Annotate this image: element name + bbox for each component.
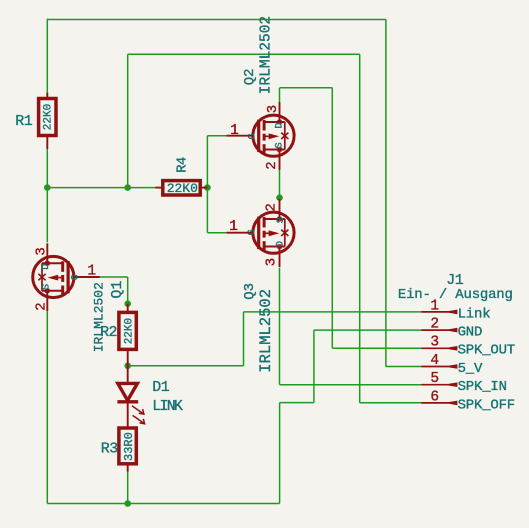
wire gate column between Q2 and Q3 gates [206,136,208,233]
wire to pin 4 5_V [386,366,421,368]
wire Q1 gate down to R2 [127,277,129,304]
svg-text:22K0: 22K0 [123,318,135,344]
wire GND down to bottom rail [279,403,281,504]
wire top 5V rail [47,19,386,21]
svg-text:S: S [276,217,287,223]
wire 5V vertical right [385,20,387,367]
svg-text:GND: GND [458,325,483,341]
svg-text:D: D [275,122,286,128]
wire GND horizontal jog [280,402,314,404]
wire to pin 5 SPK_IN [280,384,422,386]
diode D1 cathode stub [127,402,129,428]
svg-text:Link: Link [458,306,491,322]
connector J1 pin 4 5_V [421,366,450,368]
svg-text:2: 2 [264,161,280,169]
connector J1 pin 1 Link [421,311,450,313]
svg-text:Q2: Q2 [242,68,258,85]
wire bottom GND rail [47,503,279,505]
wire left rail upper (to R1) [46,19,48,93]
wire to pin 3 SPK_OUT [332,347,421,349]
svg-text:2: 2 [33,302,49,310]
svg-text:3: 3 [265,105,281,113]
svg-text:1: 1 [430,298,439,314]
wire to pin 6 SPK_OFF [360,402,422,404]
wire node row R1-R4 [47,187,155,189]
connector J1 pin 5 SPK_IN [421,384,450,386]
svg-text:D: D [275,241,286,247]
diode D1 emission arrow 2 [133,415,145,423]
svg-text:R3: R3 [101,440,118,457]
resistor R3 bottom stub [127,464,129,472]
junction node Link (R2/D1) [124,363,131,370]
svg-text:LINK: LINK [152,398,183,415]
wire R3 bottom to GND rail [127,472,129,504]
wire Q2 source to Q3 drain [279,170,281,202]
svg-text:2: 2 [264,203,280,211]
svg-text:S: S [275,142,286,148]
resistor R4 body [163,181,200,195]
transistor Q1 IRLML2502 (gate right - mirrored) [46,243,48,263]
resistor R1 body [39,99,56,136]
svg-text:3: 3 [34,247,50,255]
diode D1 cathode bar [117,400,138,403]
resistor R3 body [119,428,136,464]
transistor Q2 IRLML2502 (gate left, drain up) [279,102,281,122]
resistor R2 body [119,312,136,349]
svg-text:SPK_OUT: SPK_OUT [458,343,515,359]
svg-text:6: 6 [430,389,439,405]
junction node R4 left [124,184,131,191]
wire Q2 drain up [279,88,281,102]
wire GND vertical jog [313,330,315,403]
wire SPK_OFF vertical right [359,54,361,403]
transistor Q3 gate pin stub [226,232,253,234]
wire Q1 gate horizontal [100,276,128,278]
junction node R3 bottom / GND rail [124,500,131,507]
svg-text:3: 3 [430,335,439,351]
svg-text:S: S [42,284,53,290]
svg-text:IRLML2502: IRLML2502 [258,16,274,94]
transistor Q2 gate pin stub [226,135,253,137]
svg-text:G: G [71,274,82,280]
wire pin 2 GND horizontal [314,329,421,331]
svg-text:R4: R4 [175,157,191,173]
connector J1 pin 6 SPK_OFF [421,402,450,404]
wire Q3 gate horizontal [207,232,226,234]
svg-text:1: 1 [87,264,96,280]
svg-text:SPK_OFF: SPK_OFF [458,397,515,413]
resistor R2 pin stubs [127,304,129,313]
junction node R1 bottom [44,184,51,191]
junction node R4 right / gates [204,184,211,191]
svg-text:3: 3 [263,258,279,266]
svg-text:R1: R1 [15,113,32,130]
wire Link vertical [243,312,245,366]
diode D1 emission arrow 1 [132,406,144,414]
diode D1 triangle [118,383,138,400]
svg-text:5_V: 5_V [458,361,483,377]
svg-text:22K0: 22K0 [167,181,198,196]
junction node R2 top [124,300,131,307]
wire SPK_OUT vertical [331,88,333,349]
svg-text:33R0: 33R0 [122,432,136,461]
svg-text:IRLML2502: IRLML2502 [257,289,275,373]
svg-text:IRLML2502: IRLML2502 [92,282,107,352]
diode D1 anode stub [127,366,129,384]
wire vertical from second rail to R1/R4 node [127,54,129,187]
wire Q3 source down [279,268,281,385]
resistor R4 pin stubs [155,187,162,189]
svg-text:SPK_IN: SPK_IN [458,379,507,395]
connector J1 pin 2 GND [421,329,450,331]
svg-text:D: D [41,264,52,270]
svg-text:Ein- / Ausgang: Ein- / Ausgang [398,287,513,303]
wire Q2 drain horizontal to right [280,87,333,89]
connector J1 pin 3 SPK_OUT [421,347,450,349]
svg-text:Q1: Q1 [109,281,126,299]
wire left rail between R1 and Q1 [46,149,48,242]
wire left rail lower (Q1 source to bottom rail) [46,312,48,504]
wire Q2 gate horizontal [207,135,226,137]
svg-text:5: 5 [430,371,439,387]
wire Link to R2/D1 node [128,365,244,367]
transistor Q3 IRLML2502 (gate left, drain down - flipped) [279,199,281,219]
junction node Q2 source / Q3 drain [276,194,283,201]
svg-text:D1: D1 [152,379,169,396]
wire second top rail (SPK_OFF net) [128,53,360,55]
transistor Q1 gate pin stub [74,276,100,278]
svg-text:Q3: Q3 [242,283,258,300]
resistor R1 pin stubs [46,93,48,99]
svg-text:2: 2 [430,317,439,333]
svg-text:R2: R2 [100,324,117,341]
wire pin 1 Link horizontal [244,311,422,313]
svg-text:22K0: 22K0 [43,104,55,130]
svg-text:4: 4 [430,353,439,369]
